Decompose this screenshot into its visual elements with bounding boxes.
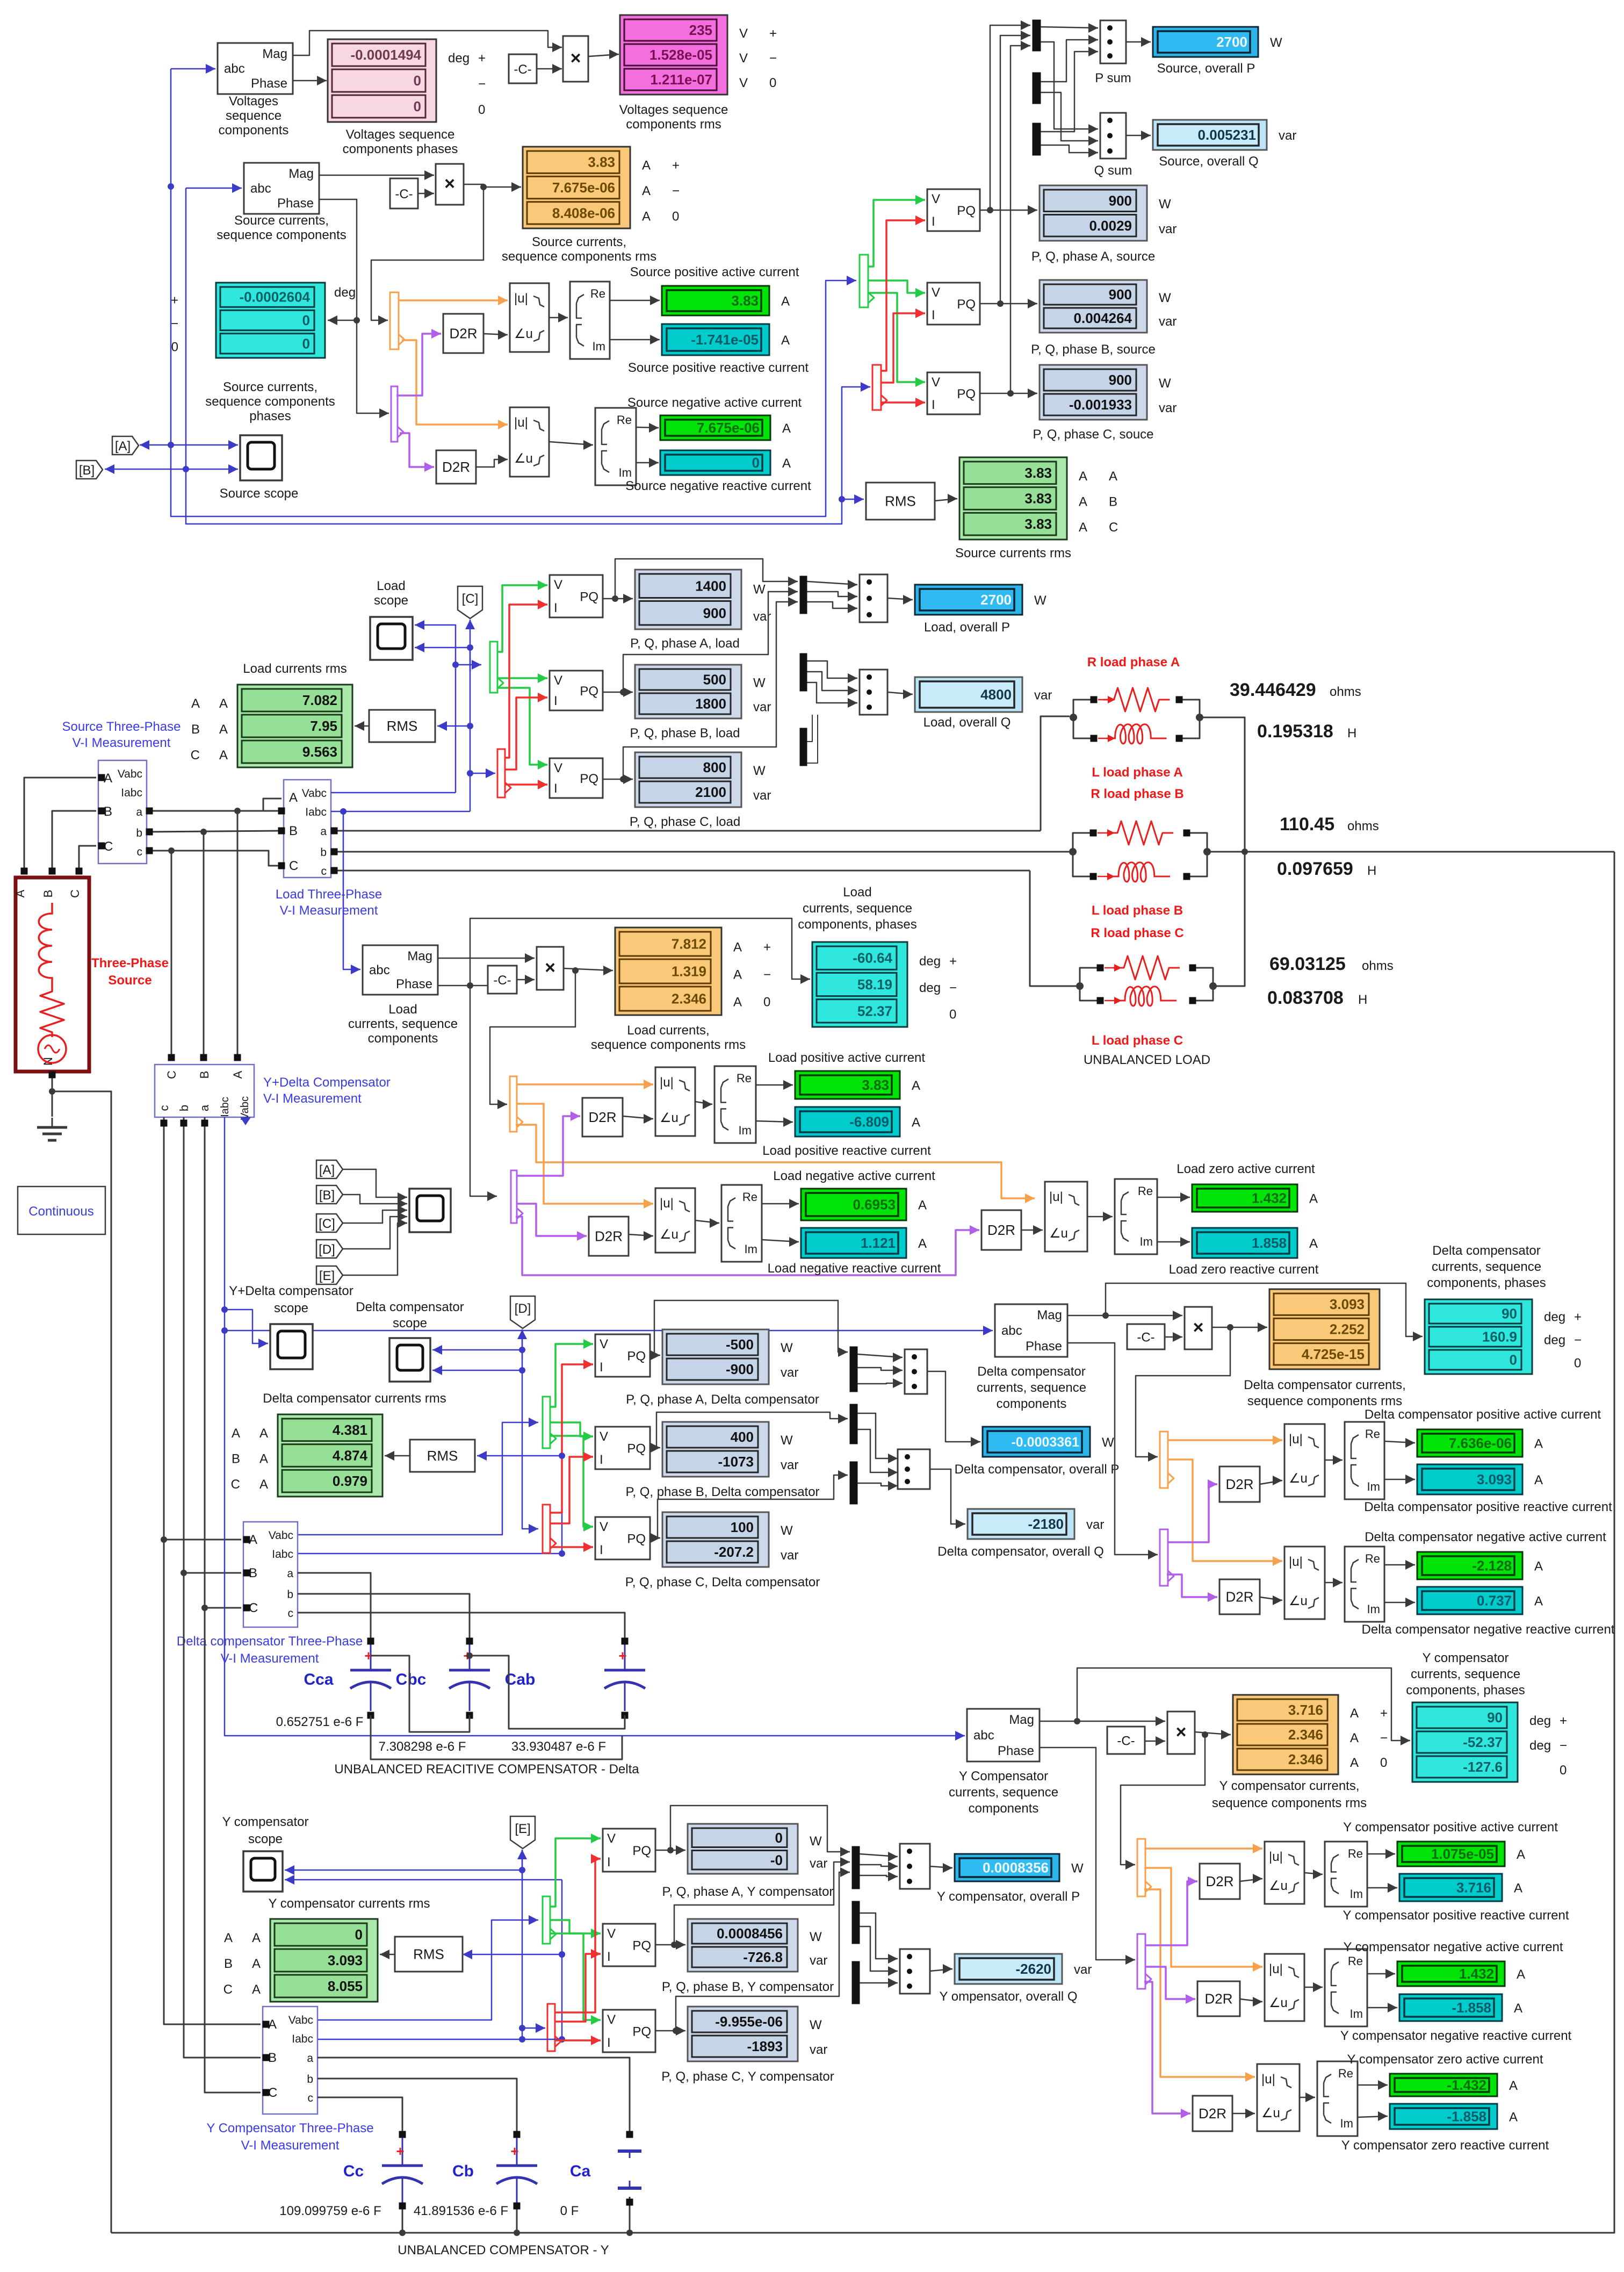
svg-text:P, Q, phase C, Delta compensat: P, Q, phase C, Delta compensator xyxy=(625,1575,820,1590)
wire a down to comp xyxy=(234,811,241,1061)
svg-text:Voltages: Voltages xyxy=(229,94,278,109)
svg-text:abc: abc xyxy=(973,1728,994,1743)
svg-text:0.652751 e-6 F: 0.652751 e-6 F xyxy=(276,1715,364,1729)
svg-text:Load currents rms: Load currents rms xyxy=(243,662,347,676)
wire U25 Re xyxy=(1358,2080,1388,2090)
svg-text:∠u: ∠u xyxy=(1289,1594,1308,1608)
wire RMS to D14 xyxy=(935,494,957,504)
svg-text:R load phase A: R load phase A xyxy=(1087,655,1180,670)
svg-text:|u|: |u| xyxy=(514,291,528,306)
wire phase a long xyxy=(331,828,1041,835)
svg-text:ohms: ohms xyxy=(1362,959,1394,973)
wire phase c long xyxy=(331,867,1030,874)
svg-text:7.636e-06: 7.636e-06 xyxy=(1449,1435,1512,1451)
block U9 Re/Im load pos xyxy=(714,1066,756,1143)
svg-text:-726.8: -726.8 xyxy=(743,1949,783,1965)
svg-text:Delta compensator negative act: Delta compensator negative active curren… xyxy=(1365,1530,1606,1544)
svg-text:I: I xyxy=(607,1855,611,1870)
wire green S9 to PQ8 V xyxy=(550,1422,593,1441)
svg-text:[D]: [D] xyxy=(319,1242,335,1257)
svg-text:deg: deg xyxy=(1544,1333,1565,1348)
wire U11 Re xyxy=(762,1199,799,1209)
svg-text:W: W xyxy=(1159,197,1171,211)
wire blue Vabc into U1 xyxy=(171,64,215,74)
wire X5 branch down xyxy=(1121,1735,1205,1870)
ground G1 xyxy=(37,1118,67,1140)
wire X5 out xyxy=(1195,1730,1231,1739)
wire blue into tag E xyxy=(517,1850,527,1881)
selector S9 (green) delta xyxy=(543,1397,556,1448)
svg-text:1.075e-05: 1.075e-05 xyxy=(1431,1846,1494,1862)
selector S12 (purple) delta xyxy=(1160,1529,1174,1586)
svg-text:[E]: [E] xyxy=(319,1269,335,1283)
svg-text:I: I xyxy=(932,214,935,229)
mux M9 xyxy=(850,1462,857,1504)
wire green S5 to PQ5 V xyxy=(497,673,547,683)
svg-text:A: A xyxy=(191,696,200,711)
selector S6 (red) load xyxy=(497,749,511,797)
wire S8 p3 long zero xyxy=(516,1217,979,1275)
svg-text:Vabc: Vabc xyxy=(302,787,327,800)
selector S7 (orange) load xyxy=(510,1076,523,1132)
wire U23 Re xyxy=(1367,1969,1395,1979)
svg-text:Y Compensator Three-Phase: Y Compensator Three-Phase xyxy=(206,2121,373,2136)
svg-text:P, Q, phase C, Y compensator: P, Q, phase C, Y compensator xyxy=(661,2069,834,2084)
wire U20 to U21 xyxy=(1304,1870,1323,1879)
svg-text:Three-Phase: Three-Phase xyxy=(91,956,169,970)
svg-text:A: A xyxy=(733,968,742,982)
block PQ1 source phase A xyxy=(927,189,980,231)
svg-text:components, phases: components, phases xyxy=(798,917,916,932)
wire blue into SC3 xyxy=(225,1310,268,1348)
svg-text:-1.741e-05: -1.741e-05 xyxy=(691,332,759,348)
display D50 Y comp positive reactive xyxy=(1342,1874,1569,1923)
svg-text:Load: Load xyxy=(377,579,405,593)
svg-text:B: B xyxy=(198,1071,211,1079)
svg-text:A: A xyxy=(912,1079,920,1093)
block Continuous xyxy=(18,1187,105,1234)
block U22 |u| xyxy=(1265,1954,1304,2021)
svg-text:B: B xyxy=(232,1452,240,1466)
sum load Q xyxy=(860,670,887,715)
block PQ6 load phase C xyxy=(550,758,603,798)
svg-text:39.446429: 39.446429 xyxy=(1230,680,1316,700)
wire blue tagB xyxy=(105,464,186,474)
svg-text:RMS: RMS xyxy=(387,718,418,734)
wire PQ11 to mux Y xyxy=(674,1857,850,1945)
svg-text:H: H xyxy=(1358,993,1367,1007)
svg-text:Re: Re xyxy=(617,413,632,427)
wire S7 o1 xyxy=(517,1080,653,1089)
svg-text:I: I xyxy=(554,694,558,708)
svg-text:Delta compensator, overall P: Delta compensator, overall P xyxy=(955,1462,1120,1477)
svg-text:Cb: Cb xyxy=(452,2162,474,2180)
block Y Compensator Three-Phase V-I Measurement xyxy=(206,2007,373,2153)
constant C2 -C- xyxy=(390,178,418,208)
wire S12 p2 xyxy=(1167,1574,1217,1602)
svg-text:A: A xyxy=(1350,1756,1359,1770)
goto tag E down xyxy=(510,1816,535,1849)
capacitor Cc xyxy=(279,2138,423,2218)
block PQ12 Y phase C xyxy=(603,2010,655,2052)
svg-text:A: A xyxy=(782,456,791,471)
display D30 P,Q phase B delta xyxy=(625,1422,819,1499)
svg-text:var: var xyxy=(781,1548,798,1563)
wire D2R2 to U4 xyxy=(476,455,508,467)
svg-text:Y Compensator: Y Compensator xyxy=(959,1769,1048,1784)
svg-text:Re: Re xyxy=(1348,1847,1363,1860)
svg-text:110.45: 110.45 xyxy=(1280,814,1334,835)
from tag D2 xyxy=(316,1240,343,1258)
svg-text:D2R: D2R xyxy=(588,1109,616,1125)
svg-text:c: c xyxy=(288,1607,294,1620)
svg-text:I: I xyxy=(932,308,935,322)
wire c down to comp xyxy=(168,851,175,1061)
svg-text:2700: 2700 xyxy=(1216,34,1247,50)
svg-text:Phase: Phase xyxy=(277,196,314,211)
svg-text:V: V xyxy=(607,1831,616,1846)
display D40 Delta comp negative reactive xyxy=(1362,1587,1615,1637)
svg-text:−: − xyxy=(1574,1333,1582,1348)
svg-text:+: + xyxy=(763,940,771,955)
block U14 Delta comp currents seq components abc xyxy=(977,1304,1086,1411)
selector S10 (red) delta xyxy=(543,1505,556,1553)
wires mux M1 to P sum xyxy=(1041,23,1098,132)
wire red S14 to PQ10 I xyxy=(555,1854,601,2012)
block U18 Re/Im xyxy=(1345,1547,1384,1622)
svg-text:Source currents,: Source currents, xyxy=(532,235,626,249)
display D21 Load currents sequence components rms xyxy=(591,928,771,1052)
svg-text:A: A xyxy=(1534,1437,1543,1451)
svg-text:Im: Im xyxy=(745,1242,757,1256)
wire c phase xyxy=(146,847,285,869)
scope SC2 Load scope xyxy=(370,579,413,660)
wire S7 o3 long zero xyxy=(516,1125,1035,1203)
svg-text:0: 0 xyxy=(752,455,760,471)
svg-text:|u|: |u| xyxy=(1261,2072,1275,2087)
svg-text:-0: -0 xyxy=(770,1852,783,1868)
svg-text:PQ: PQ xyxy=(580,590,598,605)
display D32 Delta compensator overall P xyxy=(955,1427,1120,1477)
capacitor Cb xyxy=(414,2138,537,2218)
svg-text:Phase: Phase xyxy=(396,977,432,991)
display D11 P,Q phase C source xyxy=(1033,365,1177,442)
display D36 Delta comp currents seq phases xyxy=(1425,1243,1582,1374)
svg-text:Y compensator positive active: Y compensator positive active current xyxy=(1343,1820,1558,1835)
svg-text:var: var xyxy=(1086,1518,1104,1532)
svg-text:sequence components: sequence components xyxy=(205,394,335,409)
svg-text:V: V xyxy=(554,673,562,688)
wire U17 to U18 xyxy=(1325,1578,1342,1587)
svg-text:Im: Im xyxy=(1140,1235,1153,1248)
wire S15 o3 long xyxy=(1144,1889,1255,2082)
svg-text:0: 0 xyxy=(672,209,679,224)
svg-text:Iabc: Iabc xyxy=(219,1097,231,1117)
wire U25 Im xyxy=(1358,2111,1388,2121)
svg-text:V: V xyxy=(554,761,562,775)
svg-text:+: + xyxy=(478,51,486,66)
wire b phase xyxy=(146,828,285,836)
mux M12 xyxy=(852,1961,860,2004)
svg-text:A: A xyxy=(1514,1881,1522,1896)
svg-text:A: A xyxy=(1109,469,1117,484)
svg-text:Y compensator negative active: Y compensator negative active current xyxy=(1343,1940,1563,1954)
from tag B2 xyxy=(316,1185,343,1204)
svg-text:RMS: RMS xyxy=(427,1448,458,1464)
svg-text:Mag: Mag xyxy=(262,47,287,61)
wire U5 Im out xyxy=(610,335,660,344)
svg-text:[C]: [C] xyxy=(462,592,479,606)
mux M7 xyxy=(850,1347,857,1392)
display D4 Source currents sequence components phases (mirrored) xyxy=(171,283,356,423)
scope SC3 Y+Delta compensator scope xyxy=(270,1324,313,1369)
svg-text:1.121: 1.121 xyxy=(861,1235,896,1251)
svg-text:A: A xyxy=(1514,2001,1522,2016)
wire C1 to X1 xyxy=(537,64,562,74)
svg-text:deg: deg xyxy=(448,51,470,66)
display D34 Delta compensator currents rms xyxy=(231,1391,446,1497)
wire S15 o2 xyxy=(1145,1868,1262,1972)
block U6 Re/Im xyxy=(595,408,636,485)
svg-text:-900: -900 xyxy=(726,1361,754,1377)
wire PQ1 out xyxy=(980,205,1037,215)
wire Phase3 down to purple sel xyxy=(470,986,497,1201)
svg-text:Mag: Mag xyxy=(288,167,314,181)
svg-text:0: 0 xyxy=(478,103,485,117)
svg-text:deg: deg xyxy=(1544,1310,1565,1325)
wire PQ11 out xyxy=(655,1940,685,1950)
svg-text:UNBALANCED REACITIVE COMPENSAT: UNBALANCED REACITIVE COMPENSATOR - Delta xyxy=(334,1762,639,1777)
svg-text:W: W xyxy=(781,1341,793,1355)
svg-text:Re: Re xyxy=(1365,1552,1380,1565)
svg-text:A: A xyxy=(231,1070,244,1079)
svg-text:2.346: 2.346 xyxy=(672,991,706,1007)
svg-text:Phase: Phase xyxy=(998,1744,1034,1758)
block RMS delta xyxy=(410,1440,475,1472)
wire blue Y Vabc net xyxy=(318,1915,538,2020)
selector S8 (purple) load xyxy=(511,1170,523,1223)
wire U6 Re out xyxy=(636,423,659,433)
svg-text:N: N xyxy=(41,1057,55,1066)
svg-text:abc: abc xyxy=(250,182,271,196)
wire PQ7 to dmux xyxy=(654,1300,848,1357)
svg-text:0: 0 xyxy=(949,1007,956,1022)
capacitor Cbc xyxy=(379,1638,490,1755)
svg-text:58.19: 58.19 xyxy=(857,976,892,993)
svg-text:components phases: components phases xyxy=(343,142,458,156)
mux M10 xyxy=(852,1846,860,1889)
block RMS Y xyxy=(395,1937,463,1972)
svg-text:A: A xyxy=(912,1116,920,1130)
display D25 Load negative active current xyxy=(773,1169,935,1220)
display D47 Y comp currents seq rms xyxy=(1212,1695,1388,1810)
svg-text:H: H xyxy=(1367,864,1376,878)
wire U10 to U11 xyxy=(695,1218,719,1228)
svg-text:Vabc: Vabc xyxy=(118,768,142,780)
svg-text:Re: Re xyxy=(590,287,605,300)
svg-text:∠u: ∠u xyxy=(1289,1471,1308,1486)
svg-text:components: components xyxy=(368,1031,438,1046)
svg-text:W: W xyxy=(753,676,766,691)
svg-text:A: A xyxy=(219,696,228,711)
constant C1 -C- xyxy=(509,54,537,83)
svg-text:-1073: -1073 xyxy=(718,1454,754,1470)
svg-text:V: V xyxy=(932,192,940,206)
svg-text:P sum: P sum xyxy=(1095,71,1131,85)
block U3 |u| angle u xyxy=(510,283,549,352)
svg-text:Load, overall Q: Load, overall Q xyxy=(923,715,1011,730)
svg-text:33.930487 e-6 F: 33.930487 e-6 F xyxy=(511,1739,606,1754)
svg-text:C: C xyxy=(191,748,200,763)
svg-text:Source currents,: Source currents, xyxy=(234,213,329,228)
value labels pair B xyxy=(1277,814,1379,879)
svg-text:Source negative active current: Source negative active current xyxy=(627,396,802,410)
svg-text:V-I Measurement: V-I Measurement xyxy=(280,903,378,918)
svg-text:var: var xyxy=(1159,401,1177,415)
svg-text:A: A xyxy=(918,1236,927,1251)
svg-text:W: W xyxy=(753,582,766,596)
svg-text:Source Three-Phase: Source Three-Phase xyxy=(62,720,181,734)
svg-text:currents, sequence: currents, sequence xyxy=(977,1381,1086,1395)
mux M6 xyxy=(800,728,807,766)
svg-text:Delta compensator, overall Q: Delta compensator, overall Q xyxy=(937,1544,1103,1559)
svg-text:[E]: [E] xyxy=(515,1822,530,1836)
wire PQ3 up to mux xyxy=(1011,41,1030,393)
display D45 Y compensator overall P xyxy=(937,1854,1084,1904)
block Y+Delta Compensator V-I Measurement (rotated) xyxy=(155,1065,391,1125)
svg-text:A: A xyxy=(1517,1967,1525,1982)
display D31 P,Q phase C delta xyxy=(625,1512,820,1590)
wire U23 Im xyxy=(1367,2003,1397,2012)
delta cap bottom wires xyxy=(367,1652,629,1759)
wire tee to D4 xyxy=(328,315,357,325)
wire C5 to X5 xyxy=(1145,1736,1165,1746)
wire X2 branch to selector S1 xyxy=(371,187,483,325)
svg-text:L load phase B: L load phase B xyxy=(1092,903,1183,918)
label L load B R load C xyxy=(1091,903,1183,940)
wire red S6 to PQ4 I xyxy=(505,600,547,758)
wire S11 o2 xyxy=(1168,1459,1282,1566)
svg-text:Source: Source xyxy=(108,973,151,988)
wires muxes to sums load xyxy=(807,580,857,763)
wire blue Y Iabc net xyxy=(318,2039,562,2040)
svg-text:deg: deg xyxy=(919,981,941,995)
svg-text:7.308298 e-6 F: 7.308298 e-6 F xyxy=(379,1739,466,1754)
wire S11 o1 xyxy=(1168,1435,1282,1445)
svg-text:Y compensator, overall P: Y compensator, overall P xyxy=(937,1889,1080,1904)
svg-text:var: var xyxy=(1034,688,1052,703)
svg-text:PQ: PQ xyxy=(632,1939,651,1953)
svg-text:7.812: 7.812 xyxy=(672,936,706,952)
svg-text:I: I xyxy=(600,1543,603,1557)
svg-text:c: c xyxy=(308,2092,314,2104)
block D2R5 load zero xyxy=(981,1210,1021,1250)
svg-text:|u|: |u| xyxy=(1049,1190,1063,1204)
wire deltaP out xyxy=(927,1371,980,1447)
wire D2R3 to U8 xyxy=(623,1114,653,1124)
svg-text:−: − xyxy=(1560,1738,1567,1753)
goto tag A xyxy=(112,436,139,455)
svg-text:V: V xyxy=(600,1337,608,1351)
svg-text:0: 0 xyxy=(414,98,421,114)
wire red S4 to PQ3 I xyxy=(881,398,925,407)
block U23 Re/Im xyxy=(1325,1949,1367,2026)
display D52 Y comp negative reactive xyxy=(1340,1994,1572,2043)
svg-text:Vabc: Vabc xyxy=(239,1096,251,1120)
block PQ10 Y phase A xyxy=(603,1829,655,1872)
block U15 |u| xyxy=(1284,1424,1325,1497)
capacitor Cca xyxy=(276,1638,391,1730)
svg-text:[C]: [C] xyxy=(319,1217,335,1231)
svg-text:Load negative active current: Load negative active current xyxy=(773,1169,935,1183)
svg-text:A: A xyxy=(1079,469,1087,484)
block PQ4 load phase A xyxy=(550,575,603,617)
svg-text:I: I xyxy=(554,781,558,796)
wire blue to RMS delta xyxy=(477,1451,565,1461)
block U19 Y Compensator currents seq components abc xyxy=(949,1709,1058,1816)
port squares Y VI xyxy=(263,2021,270,2096)
product X5 xyxy=(1167,1712,1195,1754)
display D28 Load zero reactive current xyxy=(1169,1228,1319,1277)
block U12 |u| load zero xyxy=(1045,1182,1087,1252)
display D26 Load negative reactive current xyxy=(768,1228,941,1276)
wire blue Iabc to abc block xyxy=(343,811,360,974)
svg-text:W: W xyxy=(753,764,766,778)
svg-text:-2180: -2180 xyxy=(1028,1516,1064,1532)
svg-text:-207.2: -207.2 xyxy=(714,1544,754,1560)
svg-text:A: A xyxy=(1350,1706,1359,1721)
block D2R1 xyxy=(443,314,483,353)
wire U13 Re xyxy=(1157,1192,1190,1202)
wire blue into tag D xyxy=(517,1329,527,1360)
svg-text:|u|: |u| xyxy=(1289,1555,1303,1569)
svg-text:-C-: -C- xyxy=(1137,1331,1154,1345)
svg-text:V-I Measurement: V-I Measurement xyxy=(241,2138,340,2153)
svg-text:sequence components rms: sequence components rms xyxy=(1212,1796,1367,1810)
svg-text:90: 90 xyxy=(1502,1306,1517,1322)
svg-text:[A]: [A] xyxy=(319,1163,335,1177)
block PQ7 delta phase A xyxy=(595,1334,650,1377)
svg-text:b: b xyxy=(136,827,142,839)
svg-text:Load, overall P: Load, overall P xyxy=(924,620,1010,635)
svg-text:Phase: Phase xyxy=(1026,1339,1062,1354)
svg-text:-1.858: -1.858 xyxy=(1452,2000,1491,2016)
svg-text:abc: abc xyxy=(369,963,390,977)
svg-text:3.716: 3.716 xyxy=(1288,1702,1323,1718)
svg-text:V-I Measurement: V-I Measurement xyxy=(221,1651,319,1666)
svg-text:PQ: PQ xyxy=(957,297,976,312)
svg-text:-C-: -C- xyxy=(493,973,511,988)
wire S12 p1 xyxy=(1168,1479,1217,1542)
svg-text:currents, sequence: currents, sequence xyxy=(348,1017,458,1031)
svg-text:-52.37: -52.37 xyxy=(1463,1734,1503,1750)
block PQ9 delta phase C xyxy=(595,1517,650,1559)
svg-text:C: C xyxy=(289,859,298,873)
svg-text:var: var xyxy=(810,1953,827,1968)
wire green S13 to PQ11 V xyxy=(550,1920,601,1938)
svg-text:a: a xyxy=(136,806,142,818)
wire S1 out2 orange xyxy=(402,340,508,429)
wire blue to SC5 in1 xyxy=(285,1865,522,1875)
svg-text:phases: phases xyxy=(249,409,291,423)
svg-text:B: B xyxy=(1109,495,1117,509)
svg-text:V: V xyxy=(600,1429,608,1444)
value labels pair A xyxy=(1230,680,1361,742)
selector S1 (orange) xyxy=(390,292,405,349)
label Delta compensator scope xyxy=(356,1300,464,1331)
block U17 |u| xyxy=(1284,1547,1325,1619)
svg-text:V: V xyxy=(739,51,748,66)
